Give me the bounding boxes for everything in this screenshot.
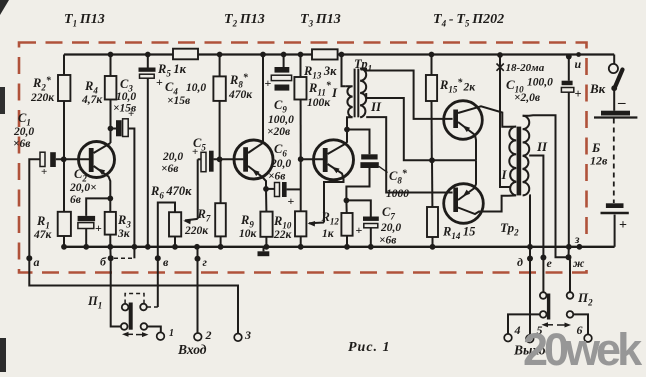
svg-text:1000: 1000 (386, 188, 409, 200)
svg-text:×6в: ×6в (379, 235, 396, 247)
transformer Tr2 core (517, 127, 522, 196)
resistor R5 in rail (173, 49, 198, 60)
capacitor C8 (347, 130, 370, 155)
svg-text:×6в: ×6в (268, 171, 285, 183)
transformer Tr2 primary winding I (509, 127, 517, 196)
transistor T4 (444, 101, 483, 140)
wire Tr1 secondary bottom tap to T5 base (366, 117, 452, 192)
dashed red enclosure border (19, 43, 587, 273)
svg-text:3: 3 (244, 328, 251, 342)
capacitor C10 filter (566, 54, 572, 60)
svg-text:I: I (331, 85, 338, 100)
label C8 1000 with leader (379, 166, 388, 172)
svg-text:а: а (34, 255, 40, 269)
svg-text:Вк: Вк (589, 81, 606, 96)
wire Tr2 secondary tap to node e (529, 156, 543, 258)
svg-text:1к: 1к (322, 228, 335, 240)
switch P1 linkage dashed (125, 294, 144, 304)
node g (195, 256, 201, 262)
capacitor C3 (108, 126, 114, 132)
wire Tr2 secondary top to node zh (523, 115, 569, 257)
svg-text:470к: 470к (228, 89, 253, 101)
svg-text:II: II (536, 139, 548, 154)
transformer Tr2 secondary winding II (523, 116, 530, 196)
svg-text:д: д (517, 255, 523, 269)
terminal 2 (197, 259, 199, 333)
svg-text:10,0: 10,0 (116, 91, 136, 103)
transformer Tr1 secondary winding II (360, 69, 366, 118)
transistor T5 (444, 184, 484, 224)
svg-text:100к: 100к (307, 97, 331, 109)
svg-text:+: + (575, 87, 582, 101)
potentiometer R6 volume (197, 159, 199, 219)
svg-text:Рис. 1: Рис. 1 (348, 340, 391, 355)
svg-text:Т2 П13: Т2 П13 (224, 12, 265, 29)
resistor R4 (110, 55, 112, 77)
switch P2 contacts (540, 292, 547, 299)
wire node a to input terminal 3 (29, 258, 238, 333)
svg-text:II: II (370, 99, 382, 114)
resistor R8 base bias (217, 52, 223, 58)
capacitor C9 filter (281, 52, 287, 58)
wiper arrow into R10 (309, 222, 324, 225)
capacitor C6 coupling (263, 186, 269, 192)
wire node e to P2 contact (542, 258, 544, 293)
scan artifact top-left corner (0, 0, 9, 15)
svg-text:е: е (547, 256, 553, 270)
wire Tr2 secondary bottom to node d (528, 195, 531, 338)
wire node v down to P1 linkage (157, 258, 159, 307)
svg-text:100,0: 100,0 (527, 77, 553, 89)
svg-text:Вход: Вход (177, 342, 207, 357)
capacitor C4 decoupling (145, 52, 151, 58)
resistor R7 (220, 159, 222, 203)
svg-text:4: 4 (514, 323, 521, 337)
resistor R2 (63, 55, 65, 76)
svg-text:3к: 3к (117, 228, 131, 240)
battery B 12V (613, 88, 615, 111)
svg-text:б: б (100, 255, 107, 269)
wire node b to P1 contact (111, 258, 121, 326)
svg-text:20,0: 20,0 (162, 151, 183, 163)
wire rail feed to Tr2 primary tap (497, 52, 503, 58)
stub and dashed link from node b (133, 247, 135, 258)
svg-text:18-20ма: 18-20ма (506, 62, 545, 74)
svg-text:2: 2 (205, 328, 212, 342)
transistor T3 (298, 156, 304, 162)
wire node zh to P2 contact (569, 257, 571, 292)
junction dots on bottom rail (61, 244, 67, 250)
node a (26, 255, 32, 261)
transistor T1 (79, 142, 115, 178)
svg-text:и: и (575, 57, 582, 71)
svg-text:ж: ж (573, 256, 585, 270)
svg-text:Т1 П13: Т1 П13 (64, 12, 105, 29)
terminal 4 (504, 334, 512, 342)
svg-text:+: + (156, 75, 163, 89)
svg-text:20,0: 20,0 (380, 222, 401, 234)
wire C5 right to T2 base (214, 158, 244, 160)
svg-text:×2,0в: ×2,0в (514, 92, 540, 104)
wire P1 to terminal 1 (147, 327, 161, 333)
node base T1 junction (61, 156, 67, 162)
terminal 1 (157, 332, 165, 340)
svg-text:6в: 6в (70, 194, 81, 206)
node z on rail (577, 244, 583, 250)
svg-text:+: + (95, 221, 102, 235)
resistor R11 base bias (298, 52, 304, 58)
resistor R14 common emitter (431, 160, 433, 207)
resistor R3 (109, 198, 111, 212)
svg-text:220к: 220к (184, 225, 209, 237)
switch P1 contacts (122, 304, 129, 311)
svg-text:з: з (574, 234, 580, 246)
node d (527, 256, 533, 262)
transformer Tr1 core (354, 69, 356, 118)
wire bottom common rail (63, 246, 614, 248)
svg-text:2к: 2к (463, 82, 477, 94)
svg-text:10,0: 10,0 (186, 82, 206, 94)
svg-text:20,0: 20,0 (13, 126, 34, 138)
resistor R12 (344, 198, 350, 204)
svg-text:×20в: ×20в (267, 126, 290, 138)
svg-text:47к: 47к (33, 229, 53, 241)
svg-text:+: + (288, 194, 295, 208)
wire top supply rail (64, 53, 173, 55)
terminal 5 (526, 335, 534, 343)
transformer Tr1 primary winding I (342, 55, 346, 87)
annotation 18-20mA measuring point (497, 64, 504, 71)
switch P1 slider bar (129, 303, 133, 330)
svg-text:20,0: 20,0 (270, 158, 291, 170)
resistor R9 (265, 189, 267, 212)
svg-text:20,0×: 20,0× (69, 182, 97, 194)
svg-text:22к: 22к (273, 229, 293, 241)
resistor R10 potentiometer (300, 159, 302, 211)
transistor T2 (234, 140, 273, 179)
node e (540, 255, 546, 261)
wire Tr1 secondary top tap to T4 base (360, 69, 453, 119)
wire P2 to terminal 6 (574, 314, 589, 334)
switch P1 motion arrows (125, 333, 133, 335)
switch P2 slider bar (547, 294, 550, 320)
svg-text:20wek: 20wek (523, 324, 643, 372)
wire Tr1 secondary centre tap to bias node (366, 93, 476, 160)
svg-text:10к: 10к (239, 228, 258, 240)
node b (108, 255, 114, 261)
capacitor C5 coupling (198, 158, 201, 160)
capacitor C7 (346, 200, 370, 216)
svg-text:+: + (356, 223, 363, 237)
capacitor C1 input coupling (29, 159, 40, 258)
switch P2 motion arrows (545, 324, 553, 326)
svg-text:г: г (203, 255, 208, 269)
svg-text:12в: 12в (590, 154, 608, 168)
svg-text:×6в: ×6в (161, 163, 178, 175)
svg-text:I: I (501, 167, 508, 182)
scan artifact left edge (0, 87, 5, 114)
svg-text:+: + (619, 218, 627, 233)
svg-text:×15в: ×15в (167, 95, 190, 107)
node i label (576, 52, 581, 57)
svg-text:1: 1 (169, 328, 174, 339)
resistor R1 (63, 159, 65, 212)
svg-text:220к: 220к (30, 92, 55, 104)
resistor R15 bias (429, 52, 435, 58)
terminal 6 (584, 334, 592, 342)
scan artifact bottom-left edge (0, 338, 6, 372)
svg-text:Т3 П13: Т3 П13 (300, 12, 341, 29)
svg-text:×15в: ×15в (113, 103, 136, 115)
svg-text:×6в: ×6в (13, 138, 30, 150)
svg-text:+: + (41, 166, 47, 178)
svg-text:+: + (265, 76, 272, 90)
svg-text:100,0: 100,0 (268, 114, 294, 126)
node v (155, 255, 161, 261)
gap in red border near node z (581, 234, 592, 261)
ground chassis symbol (263, 247, 265, 252)
resistor R13 in rail (312, 49, 338, 59)
svg-text:в: в (163, 255, 169, 269)
svg-text:4,7к: 4,7к (81, 94, 103, 106)
terminal 3 (234, 334, 242, 342)
switch Vk (613, 55, 615, 64)
wire terminal 4 to P2 (508, 314, 540, 333)
svg-text:–: – (617, 95, 626, 111)
capacitor C2 emitter bypass (107, 196, 113, 202)
node zh (566, 254, 572, 260)
